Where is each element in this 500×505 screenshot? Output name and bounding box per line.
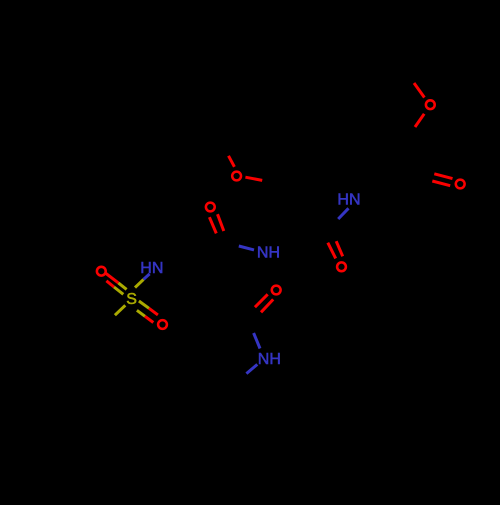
wire sulfonyl S=O3 line 1 S half: [118, 283, 126, 290]
svg-text:NH: NH: [257, 245, 280, 262]
wire amide1 C=O double bond line 2: [218, 214, 224, 231]
atom O2 ketone oxygen: [456, 180, 465, 189]
wire N4-CH3 bond (N half): [246, 364, 257, 373]
svg-text:HN: HN: [337, 192, 360, 209]
atom O4 amide1 oxygen: [206, 203, 215, 212]
wire amide N2-C bond (N half): [338, 208, 348, 219]
wire sulfonyl S=O4 line 1 S half: [139, 301, 149, 308]
wire amide3 C=O double bond line 1: [255, 294, 268, 307]
wire ketone C=O double bond line 1: [434, 174, 452, 179]
wire S-N bond N half: [144, 274, 150, 280]
wire S-N bond S half: [135, 279, 144, 287]
atom O7 sulfonyl oxygen lower: [158, 320, 167, 329]
wire amide N1-C bond (N half): [239, 246, 254, 250]
wire methoxy O-CH3 bond (O half): [229, 156, 235, 167]
wire sulfonyl S=O4 line 2 S half: [137, 310, 145, 316]
wire sulfonyl S=O4 line 1 O half: [149, 308, 158, 315]
wire ketone C=O double bond line 2: [432, 181, 450, 186]
wire sulfonyl S=O3 line 1 O half: [106, 274, 118, 283]
wire methoxy O-CH2 bond (O half): [245, 177, 262, 180]
svg-text:NH: NH: [258, 351, 281, 368]
wire furan C5-O1 bond (O half): [415, 114, 424, 127]
svg-text:S: S: [126, 291, 137, 308]
atom O1 furan oxygen: [426, 100, 435, 109]
wire furan C2-O1 bond (O half): [414, 83, 424, 98]
wire amide3 C=O double bond line 2: [261, 299, 273, 312]
wire amide1 C=O double bond line 1: [209, 217, 216, 233]
atom O8 amide3 oxygen: [272, 286, 281, 295]
wire amide2 C=O double bond line 2: [336, 241, 343, 256]
atom O6 sulfonyl oxygen upper: [97, 267, 106, 276]
atom O3 methoxy oxygen: [232, 172, 241, 181]
wire amide2 C=O double bond line 1: [328, 243, 336, 259]
atom O5 amide2 oxygen: [337, 262, 346, 271]
wire amide N4-C(=O) bond (N half): [254, 333, 260, 349]
wire S-CH3 bond (S half): [115, 305, 125, 315]
wire sulfonyl S=O3 line 2 O half: [106, 281, 114, 287]
wire sulfonyl S=O3 line 2 S half: [114, 287, 123, 294]
wire sulfonyl S=O4 line 2 O half: [145, 316, 153, 322]
svg-text:HN: HN: [140, 260, 163, 277]
